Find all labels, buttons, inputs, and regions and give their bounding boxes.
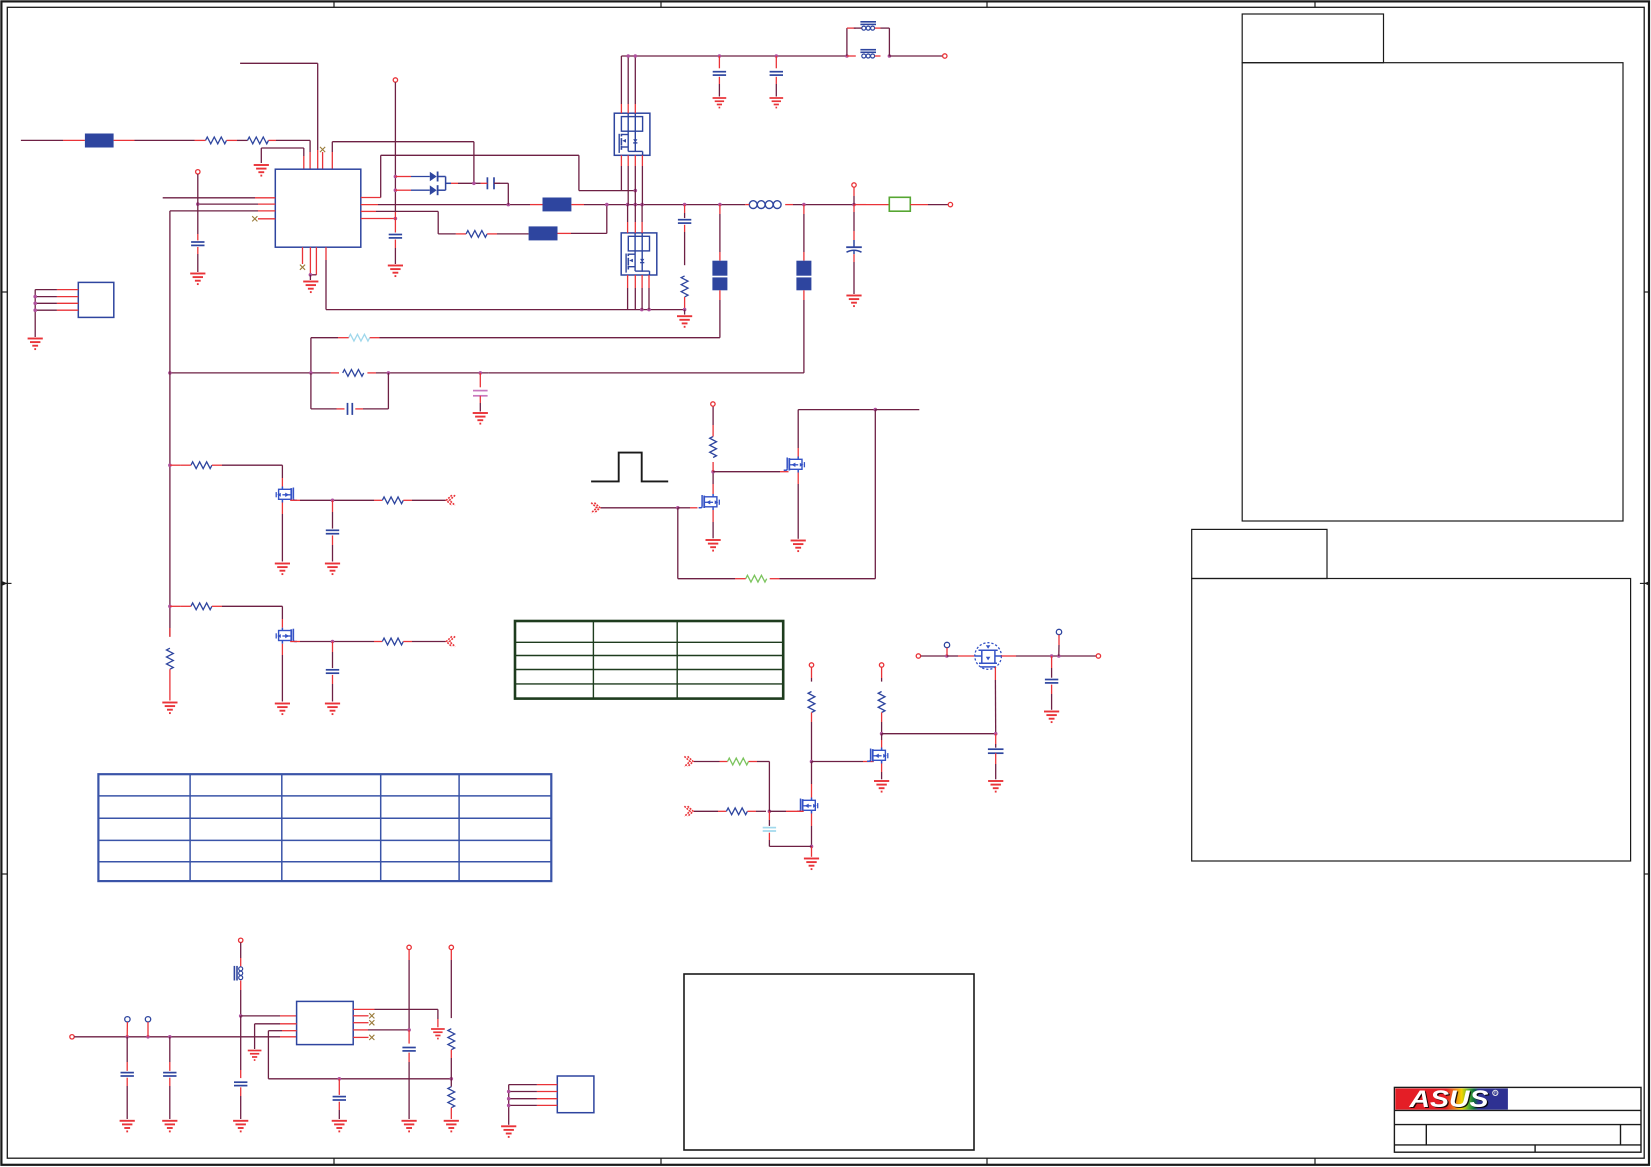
node p2 top <box>874 408 878 412</box>
node u3-2 <box>33 295 37 299</box>
pass MOSFET Q-pass (circled) <box>975 643 1002 670</box>
terminal blue circle bl1 <box>125 1017 130 1022</box>
Q-p1 drain wire <box>712 484 714 494</box>
input rail top <box>621 55 847 57</box>
wire pump vertical <box>394 82 396 170</box>
Q-p2 source gnd <box>797 473 799 485</box>
dual MOSFET Q2 (low side) <box>621 233 657 275</box>
capacitor C-comp <box>347 403 349 415</box>
U5 pins <box>537 1084 557 1086</box>
loop bottom wire <box>780 578 876 580</box>
capacitor C-snub <box>678 219 691 221</box>
resistor R-pullup <box>712 462 714 472</box>
ground C-bl2 <box>162 1121 177 1132</box>
wire C-vcc to gnd <box>197 247 199 254</box>
terminal passfet-in circle <box>916 654 920 658</box>
resistor R-drv2 <box>726 808 747 815</box>
wire U1 top pin E <box>317 150 319 169</box>
Q2 bottom pins <box>627 275 629 288</box>
capacitor C-drv (cyan) <box>768 811 770 820</box>
capacitor C-bl1 <box>126 1037 128 1062</box>
wire bead join <box>888 28 890 56</box>
diode D1 <box>395 176 411 178</box>
note tab 2 <box>1192 529 1327 578</box>
node sw6 <box>718 203 722 207</box>
ground C-b1 <box>325 564 340 575</box>
ground C-in2 <box>769 98 783 108</box>
Q-p2 drain wire <box>797 448 799 457</box>
U4 right pin1 wire <box>353 1008 374 1010</box>
note tab 1 <box>1242 14 1383 63</box>
node pf-out2 <box>1057 654 1061 658</box>
wire gnd branch top <box>303 148 305 156</box>
Q-b4 drain <box>881 740 883 748</box>
main bottom wire <box>74 1036 280 1038</box>
Q-b3 source <box>811 814 813 827</box>
Q-pass source down <box>994 667 996 680</box>
node d2 <box>394 188 398 192</box>
annotation box <box>684 974 974 1150</box>
node p1 drain <box>711 470 715 474</box>
wire top stub <box>875 409 919 411</box>
wire b1 out <box>290 499 300 501</box>
wire b4 top <box>881 667 883 678</box>
node b3 src <box>810 845 814 849</box>
wire to ground <box>260 148 262 163</box>
left rail vertical <box>169 211 171 637</box>
branch1 wire <box>170 464 181 466</box>
node u4fb2 <box>450 1077 454 1081</box>
node pf-src <box>994 732 998 736</box>
capacitor C-pf-out <box>1051 656 1053 668</box>
wire drv2 <box>694 810 718 812</box>
wire R1-R2 <box>237 139 248 141</box>
ground top-left <box>254 165 269 176</box>
terminal out circle <box>948 202 952 206</box>
node pump out <box>472 182 476 186</box>
terminal pullup circle <box>711 402 715 406</box>
loop right vertical <box>874 410 876 579</box>
node gate row <box>634 189 638 193</box>
capacitor C-pf-src <box>995 734 997 744</box>
U5 pin bus vertical <box>508 1085 510 1125</box>
zone mid arrow right <box>1640 581 1650 586</box>
terminal in circle <box>70 1035 74 1039</box>
ferrite bead FB1 top <box>847 27 856 29</box>
U1 right pin3 wire <box>361 210 376 212</box>
node gate loop <box>676 506 680 510</box>
wire csw2 down <box>803 290 805 300</box>
wire R2 to U1 pin <box>276 139 310 141</box>
terminal VCC circle <box>196 170 200 174</box>
MOSFET Q-b3 <box>797 798 818 814</box>
ground Q-b3 <box>804 859 819 870</box>
ground C-pf-out <box>1044 712 1059 723</box>
node rail3 <box>718 54 722 58</box>
node en <box>407 1028 411 1032</box>
terminal blue circle bl2 <box>145 1017 150 1022</box>
node u5-3 <box>507 1097 511 1101</box>
Q2 top pins <box>627 205 629 222</box>
comp RC lower branch <box>310 373 312 409</box>
wire en down <box>408 950 410 960</box>
node comp-left <box>168 371 172 375</box>
port PWM2 <box>446 636 455 646</box>
capacitor C-en <box>408 1030 410 1040</box>
polarized capacitor C-out <box>853 240 855 247</box>
node b2-cap <box>331 640 335 644</box>
node rail5 <box>845 54 849 58</box>
wire sense left <box>311 337 338 339</box>
terminal blue circle 2 <box>1056 629 1061 634</box>
ground C-b2 <box>325 704 340 715</box>
terminal b3 circle <box>809 663 813 667</box>
zone tick left lower <box>2 873 7 875</box>
node d1 <box>394 175 398 179</box>
resistor R-fb1 <box>448 1029 455 1050</box>
ground Q-b1 <box>275 564 290 575</box>
switch node row <box>571 204 584 206</box>
capacitor C-bl3 <box>234 1081 247 1083</box>
resistor R-fb2 <box>450 1079 452 1087</box>
wire diode join <box>445 177 447 191</box>
wire b4 gate link <box>812 761 864 763</box>
node pin4 <box>394 217 398 221</box>
terminal vin2 circle <box>239 938 243 942</box>
no-connect U4 right pin5 <box>353 1036 368 1038</box>
terminal en circle <box>407 945 411 949</box>
wire fb3 to U4 <box>241 1015 280 1017</box>
cap pack C-sw2b <box>796 277 811 290</box>
wire boot cap out <box>481 182 488 184</box>
no-connect U1 bottom pin 1 <box>302 247 304 264</box>
wire vin2 down <box>240 943 242 959</box>
ground C-out <box>846 296 861 307</box>
node b1-cap <box>331 499 335 503</box>
node rail2 <box>634 54 638 58</box>
ground C-u4fb <box>332 1121 347 1132</box>
wire sense down <box>853 187 855 196</box>
Q1 top pins <box>620 104 622 113</box>
terminal passfet-out circle <box>1096 654 1100 658</box>
wire b2 out <box>290 641 300 643</box>
node u5-2 <box>507 1090 511 1094</box>
wire passfet in <box>921 655 947 657</box>
wire fb3 down <box>240 1016 242 1070</box>
zone mid arrow left <box>2 581 12 586</box>
capacitor C-bl2 <box>169 1037 171 1062</box>
node sw4 <box>640 203 644 207</box>
fuse F1 <box>85 134 114 148</box>
wire U1 top pin B <box>309 140 311 152</box>
ground C-in1 <box>713 98 727 108</box>
node fb3 <box>239 1014 243 1018</box>
resistor R-b1out <box>374 499 382 501</box>
wire fuse to R1 <box>114 139 135 141</box>
wire VCC down <box>197 174 199 234</box>
resistor R-comp <box>331 372 339 374</box>
U3 pin bus vertical <box>34 290 36 337</box>
branch2 wire <box>170 605 181 607</box>
node bl2 <box>146 1035 150 1039</box>
resistor R-rail <box>169 628 171 637</box>
wire b4 to pass fet <box>882 733 996 735</box>
pulse waveform drawing <box>591 453 668 482</box>
node sw5 <box>683 203 687 207</box>
snubber branch <box>684 205 686 213</box>
ferrite pair branch up <box>846 28 848 56</box>
Q1 bottom pins <box>620 155 622 166</box>
capacitor C-b1 <box>332 500 334 512</box>
ground C-fb <box>473 413 488 424</box>
U3 pins <box>57 289 78 291</box>
node pf-out1 <box>1050 654 1054 658</box>
wire b1 to fet <box>222 464 282 466</box>
U4 left pin3 wire <box>268 1030 282 1032</box>
wire p1 to p2 gate <box>713 471 780 473</box>
note box 1 <box>1242 63 1623 521</box>
zone tick bottom 4 <box>1314 1158 1316 1164</box>
node sw2 <box>626 203 630 207</box>
ground U5 <box>501 1126 516 1137</box>
wire cap to gnd <box>394 240 396 249</box>
port drv2 <box>684 806 693 816</box>
wire fb down <box>450 950 452 960</box>
ground U4 pin2 <box>248 1051 262 1061</box>
resistor R-drv1 (green) <box>728 758 749 765</box>
fuse F2 green <box>889 197 910 211</box>
port pulse-in <box>591 503 600 513</box>
zone tick top 2 <box>660 2 662 7</box>
cap pack C-hi <box>543 198 572 212</box>
node u3-4 <box>33 308 37 312</box>
blue table <box>98 774 551 881</box>
node rail4 <box>775 54 779 58</box>
resistor R2 <box>248 137 269 144</box>
wire rail out <box>889 55 942 57</box>
node u4fb1 <box>338 1077 342 1081</box>
ground Q-b4 <box>874 781 889 792</box>
ground pump <box>388 266 403 277</box>
terminal circle top <box>393 78 397 82</box>
Q-b2 source gnd <box>281 644 283 655</box>
node cap feed <box>507 203 511 207</box>
zone tick top 1 <box>333 2 335 7</box>
ground U1 bottom <box>303 282 318 293</box>
wire csw1 down <box>719 290 721 300</box>
zone tick bottom 1 <box>333 1158 335 1164</box>
resistor R-snub <box>681 276 688 297</box>
ground C-bl1 <box>120 1121 135 1132</box>
resistor R-b4 <box>878 692 885 713</box>
node left pin2 <box>196 202 200 206</box>
cap pack C-sw2a <box>803 205 805 214</box>
ground C-pf-src <box>988 781 1003 792</box>
capacitor C-u4fb <box>338 1079 340 1088</box>
wire U1 top pin D net <box>331 142 333 152</box>
capacitor C-vcc <box>191 241 204 243</box>
ferrite bead FB2 bottom <box>847 55 856 57</box>
wire b3 top <box>811 667 813 678</box>
node sw1 <box>605 203 609 207</box>
node sw3 <box>634 203 638 207</box>
node rail-b2 <box>168 605 172 609</box>
zone tick right upper <box>1644 291 1649 293</box>
wire to fuse2 <box>854 204 866 206</box>
MOSFET Q-b4 <box>867 748 888 764</box>
no-connect U1 top pin C <box>322 152 324 169</box>
ground C-bl3 <box>233 1121 248 1132</box>
wire b3 drain <box>811 762 813 785</box>
resistor R-b1 <box>191 462 212 469</box>
node drv2 <box>768 810 772 814</box>
U4 left pin2 wire <box>255 1023 280 1025</box>
U4 right pin4 wire <box>353 1029 368 1031</box>
capacitor C-b2 <box>332 642 334 653</box>
node bl1 <box>125 1035 129 1039</box>
wire clo to node <box>558 232 572 234</box>
wire cout gnd <box>853 254 855 262</box>
wire b2 to fet <box>222 605 282 607</box>
ground Q-b2 <box>275 704 290 715</box>
wire fuse2 out <box>910 204 928 206</box>
IC U3 (sensor) <box>78 282 114 317</box>
title block <box>1394 1087 1641 1152</box>
port PWM1 <box>446 495 455 505</box>
ferrite bead FB3 <box>233 966 235 981</box>
resistor R-b2 <box>191 603 212 610</box>
resistor R-lgate <box>466 231 487 238</box>
no-connect U4 right pin3 <box>353 1022 368 1024</box>
U1 left pin 2 wire <box>198 203 258 205</box>
Q-p1 source gnd <box>712 510 714 522</box>
zone tick right lower <box>1644 873 1649 875</box>
wire down to diode cap node <box>473 142 475 184</box>
node L-out <box>802 203 806 207</box>
node pf-in <box>945 654 949 658</box>
node comp-a <box>309 371 313 375</box>
capacitor C-in2 <box>775 56 777 64</box>
zone tick bottom 3 <box>986 1158 988 1164</box>
resistor R-b3 <box>808 692 815 713</box>
U1 bottom pin feedback wire <box>325 247 327 260</box>
node b4 drain <box>880 732 884 736</box>
resistor R-loop (green) <box>746 575 767 582</box>
cap pack C-sw1a <box>719 205 721 214</box>
zone tick bottom 2 <box>660 1158 662 1164</box>
node b3 gate <box>810 760 814 764</box>
wire input net <box>21 139 63 141</box>
green table <box>515 621 783 699</box>
MOSFET Q-b1 <box>276 487 297 503</box>
MOSFET Q-p1 <box>699 494 720 510</box>
zone tick top 4 <box>1314 2 1316 7</box>
IC U1 <box>275 169 361 247</box>
dual MOSFET Q1 (high side) <box>614 113 650 155</box>
Q-b1 source gnd <box>281 503 283 515</box>
U1 right pin1 wire (boot) <box>361 197 381 199</box>
cap pack C-lo <box>529 226 558 240</box>
port drv1 <box>684 756 693 766</box>
no-connect U1 left pin 4 <box>258 218 275 220</box>
pink capacitor C-fb <box>479 373 481 381</box>
node fb1 <box>640 308 644 312</box>
ground R-fb2 <box>444 1121 459 1132</box>
capacitor C-pump-gnd <box>389 234 402 236</box>
node fb join <box>888 54 892 58</box>
MOSFET Q-p2 <box>784 457 805 473</box>
capacitor C-in1 <box>718 56 720 64</box>
node bl3 <box>168 1035 172 1039</box>
wire top net upper <box>240 62 318 64</box>
node u5-4 <box>507 1104 511 1108</box>
zone tick left upper <box>2 291 7 293</box>
terminal fb circle <box>449 945 453 949</box>
wire pulse gate <box>601 507 678 509</box>
node snub gnd <box>683 308 687 312</box>
terminal blue circle 1 <box>944 642 949 647</box>
loop left vertical <box>677 508 679 579</box>
wire drv1 <box>694 761 720 763</box>
ground U4 pin1 <box>431 1029 445 1039</box>
U1 bottom gnd pins <box>309 247 311 275</box>
node rail1 <box>626 54 630 58</box>
diode D2 <box>395 189 411 191</box>
resistor R-b2out <box>374 641 382 643</box>
IC U5 <box>557 1076 594 1113</box>
wire passfet out <box>1001 655 1016 657</box>
svg-text:ASUS: ASUS <box>1408 1086 1489 1113</box>
inductor L1 <box>749 201 757 209</box>
ground Q-p2 <box>791 541 806 552</box>
ground Q-p1 <box>706 540 721 551</box>
MOSFET Q-b2 <box>276 628 297 644</box>
terminal vout-sense circle <box>852 183 856 187</box>
U1 left pin 3 wire <box>170 210 258 212</box>
resistor R-sense (cyan) <box>349 334 370 341</box>
U1 right pin2 wire <box>361 204 378 206</box>
node rail-b1 <box>168 463 172 467</box>
resistor R1 <box>206 137 227 144</box>
wire feedback row <box>326 309 685 311</box>
cap pack C-sw1b <box>712 277 727 290</box>
ground snubber <box>677 316 692 327</box>
terminal rail circle <box>943 54 947 58</box>
U1 right pin4 wire <box>361 218 396 220</box>
wire into fet <box>947 655 958 657</box>
wire L1 out <box>745 204 749 206</box>
wire comp row <box>170 372 331 374</box>
ground left rail <box>162 703 177 714</box>
U1 left pin 1 wire <box>163 197 255 199</box>
ground U3 <box>28 339 43 350</box>
zone tick top 3 <box>986 2 988 7</box>
Q-b4 source gnd <box>881 764 883 773</box>
ground C-vcc <box>190 274 205 285</box>
IC U4 (regulator) <box>297 1001 354 1044</box>
capacitor C-boot <box>486 177 488 189</box>
terminal b4 circle <box>879 663 883 667</box>
node fb2 <box>647 308 651 312</box>
node out-cap <box>852 203 856 207</box>
node comp-b <box>387 371 391 375</box>
note box 2 <box>1192 579 1631 862</box>
node comp-c <box>479 371 483 375</box>
ground C-en <box>402 1121 417 1132</box>
no-connect U4 right pin2 <box>353 1015 368 1017</box>
node u3-3 <box>33 302 37 306</box>
